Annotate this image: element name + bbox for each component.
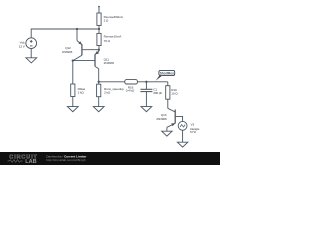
svg-text:5 Hz: 5 Hz [190,130,197,134]
svg-text:2N3906: 2N3906 [104,61,115,65]
svg-text:2N3906: 2N3906 [62,50,73,54]
wire: source to ground [30,49,32,58]
svg-text:300 pF: 300 pF [153,91,162,95]
svg-text:ShortRes: ShortRes [160,71,174,75]
resistor Rsense300mA [98,6,100,13]
Q11 base wire from node A [73,60,95,62]
node: rail junction at x=99 [98,28,100,30]
node: Q12 base / Q11 emitter / Rsense junction [98,49,100,51]
svg-text:http://circuitlab.com/c2t5mgh: http://circuitlab.com/c2t5mgh [46,158,86,162]
wire: R16 to corner above R10 [137,81,167,83]
svg-text:2 kΩ: 2 kΩ [78,90,85,94]
Q12 emitter wire from rail [76,29,78,41]
triangle wave glyph [180,125,185,127]
svg-text:2 Ω: 2 Ω [104,19,109,23]
Q12 collector diagonal [73,55,82,60]
Q11 base bar [94,54,96,66]
svg-text:10 Ω: 10 Ω [171,92,178,96]
wire: output node to R16 [99,81,125,83]
node: rail junction at x=77 [76,28,78,30]
wire: V3 to ground [182,130,184,142]
Q13 emitter diagonal with arrow into bar [167,123,175,127]
capacitor C1 [145,82,147,90]
node A: Q12 collector / Q11 base / Rbias junction [72,59,74,61]
node flag: ShortRes [156,70,175,80]
svg-text:70 Ω: 70 Ω [104,39,111,43]
Q11 emitter wire [98,50,100,52]
Q11 emitter diagonal with arrow into bar [95,52,99,55]
ground (below V3) [177,142,187,147]
svg-text:LAB: LAB [25,159,37,165]
ground (below C1) [141,107,152,112]
Q13 base bar [174,110,176,124]
CircuitLab logo [8,155,38,165]
ground (below Vdc) [26,58,37,63]
Q12 emitter diagonal with arrow into bar [77,41,82,45]
svg-text:V3: V3 [191,122,195,126]
ground (below Q13 emitter) [162,131,172,136]
Q12 base bar [81,44,83,55]
Q13 emitter wire down [166,127,168,131]
footer bar [0,152,220,165]
ground (below Rbias) [67,107,78,112]
resistor Rsense10mA [98,29,100,33]
Q11 collector diagonal [95,66,99,68]
node: C1 junction [145,81,147,83]
wire: top rail [31,29,99,38]
resistor R10 (vertical right) [167,82,169,86]
Q13 collector diagonal from R10 [168,108,175,112]
svg-text:12 V: 12 V [19,44,26,48]
voltage source V1 (Vdc) [26,38,37,49]
minus sign [30,45,33,47]
Q13 base lead right then down to V3 [175,116,182,121]
resistor R16 (horizontal) [125,80,138,84]
svg-text:2 kΩ: 2 kΩ [104,90,111,94]
plus sign [30,40,33,43]
Q12 base lead to the right [82,49,99,51]
resistor Rsns_speedup [97,84,101,97]
resistor Rbias [72,61,74,84]
node: output junction [98,81,100,83]
voltage source V3 (triangle) [178,121,187,130]
ground (below Rsns_speedup) [93,107,104,112]
svg-text:0.4 kΩ: 0.4 kΩ [126,88,135,92]
svg-text:2N3906: 2N3906 [156,117,167,121]
Q11 collector wire down [98,69,100,85]
